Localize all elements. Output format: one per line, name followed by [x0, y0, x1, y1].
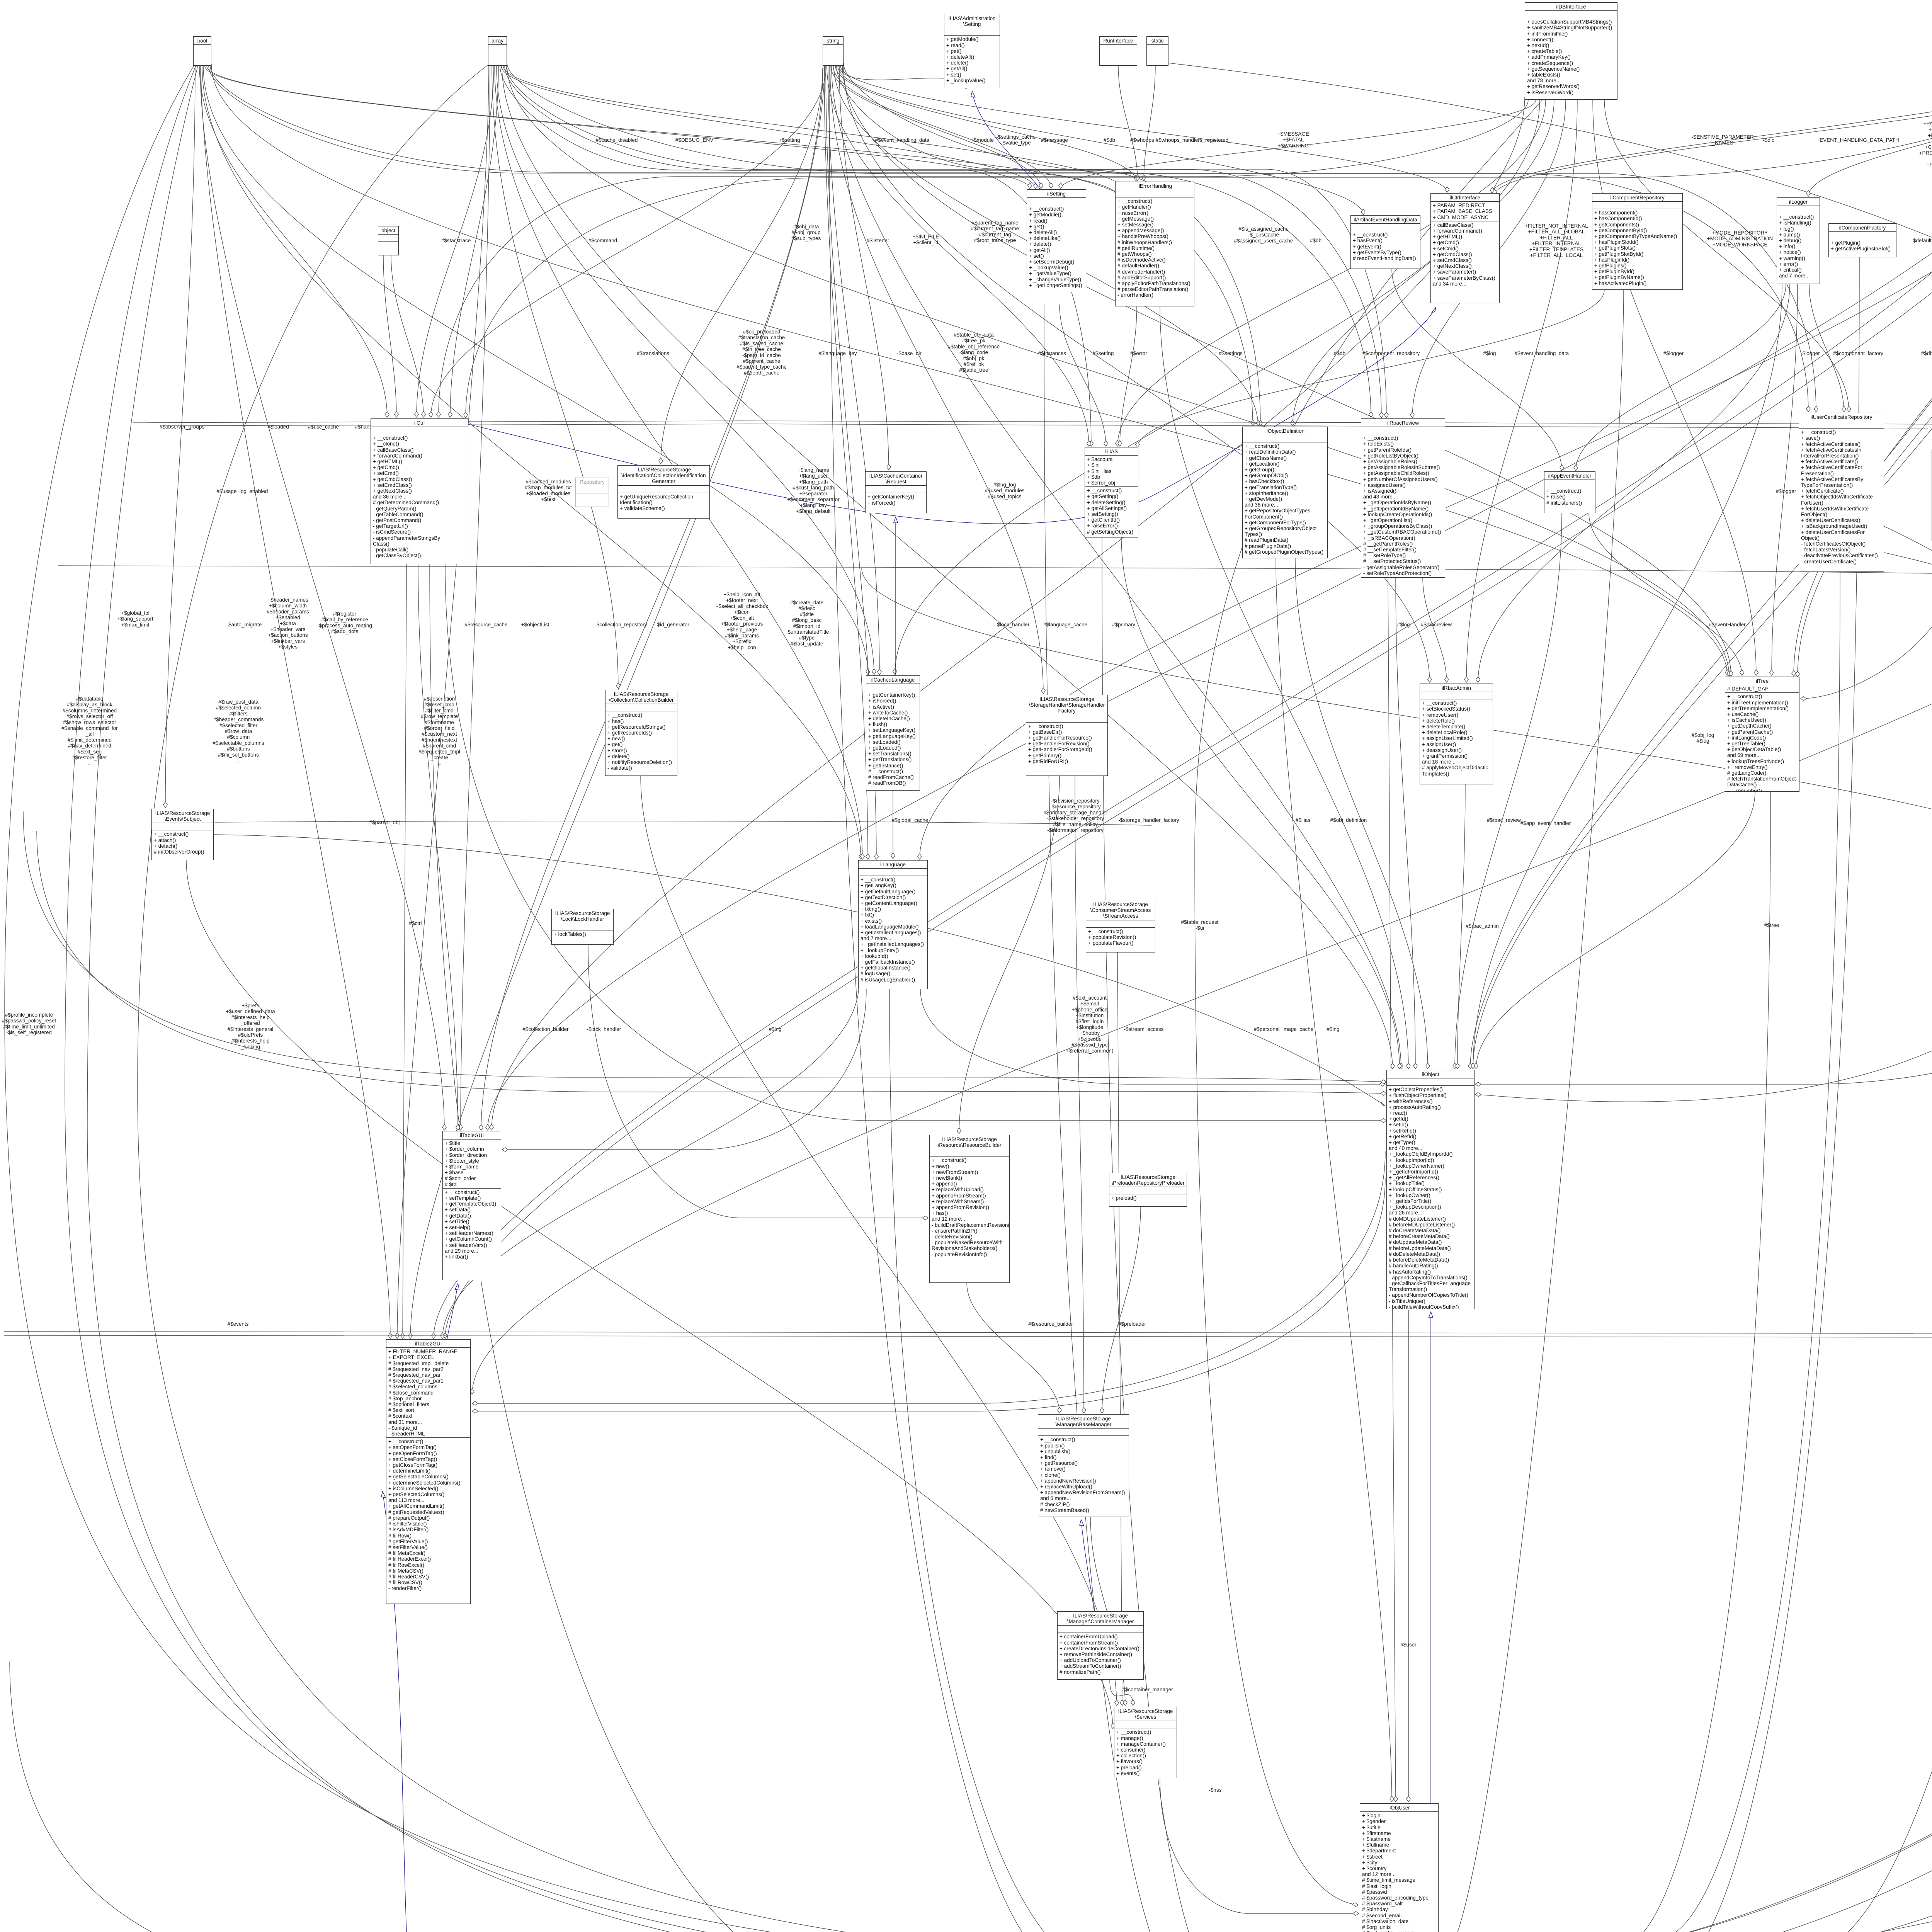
edge blue-ContainerMgr-BaseMgr	[1081, 1520, 1094, 1611]
svg-text:-$storage_handler_factory: -$storage_handler_factory	[1118, 817, 1179, 823]
svg-text:#$resource_builder: #$resource_builder	[1028, 1321, 1073, 1327]
svg-text:#$tree: #$tree	[1764, 922, 1779, 928]
class BaseManager	[1038, 1414, 1129, 1517]
edge ilCompRepo-ILIAS	[1138, 290, 1604, 447]
edge ilLogger-ilAppEvent	[1576, 284, 1786, 471]
svg-text:+$global_tpl+$lang_support+$ma: +$global_tpl+$lang_support+$max_limit	[117, 610, 153, 628]
edge busF2	[4, 1333, 1932, 1338]
edge busC1	[58, 566, 1932, 587]
svg-text:#$rbac_review: #$rbac_review	[1487, 817, 1521, 823]
svg-text:-$collection_repository: -$collection_repository	[595, 622, 647, 628]
svg-text:#$register#$call_by_reference-: #$register#$call_by_reference-$process_a…	[317, 611, 372, 634]
class StorageHandlerFactory	[1026, 695, 1108, 776]
edge Preloader-BaseMgr	[1102, 1207, 1141, 1413]
edge array-ilUserCert	[507, 63, 1808, 412]
edge static-ilErrorHandling	[1144, 66, 1155, 180]
edge const-ilLogger	[1808, 66, 1932, 196]
svg-text:#$lng: #$lng	[769, 1026, 781, 1032]
edge array-CollBuilder	[492, 66, 618, 689]
edge db-ILIAS	[1117, 100, 1546, 446]
svg-text:#$translations: #$translations	[637, 350, 669, 356]
class ilAppEventHandler	[1544, 471, 1595, 513]
edge string-ilObjectDefinition	[834, 66, 1258, 426]
edge ilGlobalTpl-ilTable2GUI	[472, 416, 1932, 1394]
svg-text:#$app_event_handler: #$app_event_handler	[1520, 820, 1571, 826]
svg-text:-$lock_handler: -$lock_handler	[587, 1026, 621, 1032]
edge ilCtrl-ilObject	[445, 564, 1386, 1121]
svg-text:#$whoops_handlers_registered: #$whoops_handlers_registered	[1156, 137, 1228, 143]
edge const-ilTree	[1798, 66, 1932, 677]
edge bool-ilObjUser-b	[65, 66, 1357, 1932]
edge int-ilCtrl	[466, 63, 1932, 418]
svg-text:#$listener: #$listener	[867, 238, 889, 243]
edge db-ilRbacAdmin	[1466, 100, 1577, 682]
svg-text:#$message: #$message	[1041, 137, 1068, 143]
svg-text:-$logger: -$logger	[1801, 350, 1820, 356]
edge bool-ilObjectDefinition	[209, 66, 1253, 425]
edge ilObjectDIC-ilObject	[1475, 271, 1932, 1102]
edge blue-ilObjUser-ilObject	[1430, 1312, 1431, 1803]
edge Services-ilObjUser	[1160, 1778, 1359, 1913]
class object	[378, 226, 399, 255]
svg-text:#$db: #$db	[1310, 238, 1321, 243]
edge array-ilObjectDefinition	[505, 66, 1260, 426]
edge string-ilTable2GUI	[410, 66, 825, 1338]
svg-text:#$lng_log#$used_modules#$used_: #$lng_log#$used_modules#$used_topics	[985, 482, 1025, 499]
svg-text:#$error: #$error	[1130, 350, 1147, 356]
class ilDBInterface	[1525, 2, 1617, 100]
svg-text:-$auto_migrate: -$auto_migrate	[227, 622, 262, 628]
edge ilLogger-ilUserCert	[1809, 284, 1844, 412]
edge ilRbacAdmin-ilObject	[1458, 784, 1465, 1069]
svg-text:#$loaded: #$loaded	[267, 424, 289, 430]
edge LockHandler-ResBuilder	[588, 945, 928, 1218]
edge ilAppEvent-ilTree	[1589, 513, 1742, 675]
edge array-ilLanguage	[495, 66, 862, 859]
svg-text:+$setting: +$setting	[779, 137, 800, 143]
edge string-ilObject	[832, 66, 1401, 1069]
svg-text:+$prefs+$user_defined_data#$in: +$prefs+$user_defined_data#$interests_he…	[226, 1003, 275, 1049]
edge const-ilLanguage	[920, 66, 1932, 859]
edge string-ilTree	[842, 64, 1731, 676]
edge string-ilSetting1	[831, 66, 1041, 189]
edge ilCtrl-ilTableGUI	[418, 564, 458, 1130]
edge bool-ilTableGUI	[200, 66, 444, 1130]
edge ilTree-ilObjUser	[1440, 792, 1770, 1932]
class ilArtifact	[1350, 215, 1420, 269]
edge string-ilTableGUI	[481, 66, 823, 1130]
svg-text:#$stacktrace: #$stacktrace	[441, 238, 471, 243]
svg-text:#$datatable#$display_as_block#: #$datatable#$display_as_block#$columns_d…	[61, 696, 118, 766]
edge CollBuilder-Services	[641, 776, 1117, 1706]
edge ilRbacReview-ilRbacAdmin	[1423, 578, 1447, 682]
svg-text:+FILTER_NOT_INTERNAL+FILTER_AL: +FILTER_NOT_INTERNAL+FILTER_ALL_GLOBAL+F…	[1525, 223, 1588, 258]
edge string-ilLanguage1	[824, 66, 868, 859]
svg-text:#$collection_builder: #$collection_builder	[522, 1026, 569, 1032]
edge Subject-Services	[186, 860, 1113, 1729]
svg-text:#$logger: #$logger	[1663, 350, 1684, 356]
svg-text:#$raw_post_data#$selected_colu: #$raw_post_data#$selected_column#$filter…	[213, 699, 264, 764]
svg-text:+$help_icon_alt+$footer_next+$: +$help_icon_alt+$footer_next+$select_all…	[716, 592, 768, 656]
edge int-ilTableGUI	[488, 64, 1932, 1130]
edge string-ilErrorHandling	[835, 66, 1136, 181]
edge ilCron-ilObjUser	[1441, 670, 1932, 1932]
class ilErrorHandling	[1115, 182, 1194, 306]
edge ilLanguage-ilObject	[920, 989, 1385, 1084]
svg-text:#$cache_disabled: #$cache_disabled	[596, 137, 638, 143]
svg-text:-$irss: -$irss	[1209, 1787, 1222, 1793]
edge busE2	[37, 831, 1386, 1094]
svg-text:#$preloader: #$preloader	[1118, 1321, 1146, 1327]
edge object-ilCtrl-2	[391, 255, 423, 417]
edge static-far	[1168, 63, 1932, 1932]
edge object-ilCtrl-1	[383, 255, 396, 417]
edge ilSetting-ilObjUser	[1044, 304, 1358, 1932]
edge user-vert	[1408, 1310, 1409, 1802]
edge array-ilTree	[507, 64, 1729, 676]
svg-text:#$instances: #$instances	[1038, 350, 1066, 356]
edge DateFmt-ilObjUser	[1441, 1756, 1932, 1932]
class ilObjUser	[1360, 1803, 1439, 1932]
edge bool-ilCtrl	[199, 66, 387, 417]
edge string-ilSetting2	[833, 66, 1051, 189]
edge bool-ilObjUser-a	[5, 66, 1357, 1932]
svg-text:#$db: #$db	[1921, 350, 1932, 356]
svg-text:#$user: #$user	[1400, 1642, 1417, 1648]
edge ilCompRepo-ilObjUser	[1440, 290, 1624, 1932]
class LockHandler	[551, 909, 614, 945]
edge busD1	[215, 821, 1151, 825]
edge ilRbacReview-ilObjUser	[1388, 578, 1396, 1802]
edge run-ilErrorHandling	[1118, 66, 1138, 180]
svg-text:#$personal_image_cache: #$personal_image_cache	[1254, 1026, 1314, 1032]
edge string-ilRbacAdmin	[844, 65, 1430, 682]
edge ResBuilder-BaseMgr	[967, 1283, 1060, 1413]
edge ilLogger-ilRbacAdmin	[1478, 284, 1790, 682]
edge string-CacheRequest	[839, 66, 889, 470]
edge ilObjDef-ilObjUser	[1276, 558, 1392, 1802]
class ilTreeImplementation	[1932, 449, 1932, 541]
svg-text:+$MESSAGE+$FATAL+$WARNING: +$MESSAGE+$FATAL+$WARNING	[1277, 131, 1309, 148]
edge busB2	[162, 424, 1928, 428]
svg-text:-$stream_access: -$stream_access	[1124, 1026, 1164, 1032]
edge ilUserCert-ilExercise	[1440, 553, 1932, 1932]
edge db-ilSetting	[1061, 100, 1536, 189]
svg-text:#$create_date#$desc#$title#$lo: #$create_date#$desc#$title#$long_desc#$i…	[785, 600, 829, 646]
svg-text:+$header_names+$column_width#$: +$header_names+$column_width#$header_par…	[267, 597, 309, 650]
edge const-ilCtrlInterface	[1495, 66, 1932, 195]
edge int-ilObjUser	[1440, 66, 1932, 1932]
edge ilErr-ilObject	[1160, 306, 1408, 1069]
svg-text:#$obj_log#$log: #$obj_log#$log	[1692, 732, 1714, 744]
svg-text:#$rbacreview: #$rbacreview	[1421, 622, 1452, 628]
edge ilLogger-ilObject	[1473, 284, 1782, 1069]
class ilCtrlInterface	[1430, 193, 1500, 303]
edge db-ilTableGUI	[492, 97, 1525, 1130]
class ilCtrl	[371, 418, 468, 564]
edge blue-ilTable2GUI-ilTableGUI	[447, 1284, 458, 1339]
edge bool-ilLanguage	[202, 66, 861, 859]
svg-text:+$INI_FILE+$client_id: +$INI_FILE+$client_id	[913, 234, 939, 245]
edge ilCached-ilLanguage	[893, 791, 893, 859]
svg-text:#$logger: #$logger	[1776, 488, 1796, 494]
svg-text:#$setting: #$setting	[1093, 350, 1114, 356]
edge ilErr-ILIAS	[1120, 306, 1137, 446]
edge ilAppEvent-ilObject	[1455, 513, 1562, 1069]
edge BaseMgr-Services	[1090, 1517, 1125, 1706]
edge StreamAccess-Services	[1117, 952, 1122, 1706]
svg-text:#$description#$reset_cmd#$filt: #$description#$reset_cmd#$filter_cmd#$ro…	[418, 696, 460, 766]
edge array-ilTable2GUI	[397, 66, 489, 1338]
edge int-ilTree	[1794, 66, 1932, 676]
svg-text:#$db: #$db	[1334, 350, 1345, 356]
class string	[823, 36, 844, 66]
class ilSetting	[1027, 189, 1086, 292]
svg-text:#$usage_log_enabled: #$usage_log_enabled	[217, 488, 268, 494]
edge array-ilTableGUI	[461, 66, 490, 1130]
edge ILIAS-ilObject	[1121, 537, 1400, 1069]
edge ilCtrl-ilTable2GUI	[403, 564, 406, 1338]
edge string-ilCtrlInterface	[840, 66, 1447, 192]
svg-text:#$table_obj_data#$tree_pk#$tab: #$table_obj_data#$tree_pk#$table_obj_ref…	[948, 332, 1000, 373]
svg-text:#$resource_cache: #$resource_cache	[464, 622, 507, 628]
svg-text:#$language_key: #$language_key	[818, 350, 857, 356]
edge x-ilTable2GUI-r2	[472, 1179, 1385, 1411]
svg-text:#$observer_groups: #$observer_groups	[160, 424, 205, 430]
edge array-ilObjUser	[138, 65, 1357, 1932]
edge bool-ilRbacReview	[210, 66, 1371, 417]
svg-text:#$ext_account+$email+$phone_of: #$ext_account+$email+$phone_office+$inst…	[1066, 995, 1113, 1060]
svg-text:+EVENT_HANDLING_DATA_PATH: +EVENT_HANDLING_DATA_PATH	[1816, 137, 1899, 143]
class CacheRequest	[865, 471, 927, 513]
edge array-ilCachedLanguage	[497, 66, 874, 675]
svg-text:-$dic: -$dic	[1763, 137, 1774, 143]
edge ilLogger-ilTree	[1772, 284, 1798, 675]
class ilComponentRepository	[1592, 193, 1683, 290]
svg-text:-$defaultTitle: -$defaultTitle	[1911, 238, 1932, 243]
edge bool-ilTree	[211, 64, 1727, 675]
class ILIAS	[1085, 447, 1138, 537]
class bool	[193, 36, 211, 66]
edge bool-Subject	[165, 66, 195, 808]
class ilCachedLanguage	[866, 675, 920, 791]
edge bool-ilObjUser-c	[87, 66, 1357, 1932]
class static	[1146, 36, 1168, 66]
edge int-ilTable2GUI	[434, 66, 1932, 1338]
svg-text:#$whoops: #$whoops	[1130, 137, 1154, 143]
class ilObject	[1386, 1070, 1475, 1309]
edge db-ilCachedLanguage	[895, 100, 1540, 674]
svg-text:-$id_generator: -$id_generator	[655, 622, 689, 628]
edge array-ILIAS	[500, 66, 1091, 446]
svg-text:-$base_dir: -$base_dir	[897, 350, 922, 356]
svg-text:#$oc_preloaded#$translation_ca: #$oc_preloaded#$translation_cache#$is_sa…	[736, 329, 787, 376]
svg-text:-$settings_cache-$value_type: -$settings_cache-$value_type	[996, 134, 1036, 146]
svg-text:+MODE_REPOSITORY+MODE_ADMINIST: +MODE_REPOSITORY+MODE_ADMINISTRATION+MOD…	[1707, 230, 1773, 247]
edge db-ilUserCertRepo	[1604, 100, 1849, 412]
edge bool-ilTable2GUI	[201, 66, 390, 1338]
edge ilLanguage-ilTable2GUI	[442, 983, 859, 1338]
edge array-ilCtrl-1	[417, 66, 494, 417]
edge busC2	[862, 568, 1932, 877]
edge SHF-BaseMgr	[1075, 776, 1084, 1413]
edge ilGlobalTpl-ilObjUser	[1441, 416, 1932, 1932]
edge busG1	[10, 1662, 1357, 1932]
edge db-ilCtrl	[439, 100, 1528, 417]
edge ContainerMgr-Services	[1110, 1680, 1133, 1706]
svg-text:+$objectList: +$objectList	[521, 622, 549, 628]
svg-text:#$DEBUG_ENV: #$DEBUG_ENV	[675, 137, 713, 143]
edge string-ilRbacReview	[837, 66, 1386, 418]
edge const-ilObjUser-right	[1441, 66, 1932, 1932]
svg-text:-$revision_repository-$resourc: -$revision_repository-$resource_reposito…	[1043, 798, 1107, 833]
edge db-ilTree	[1593, 100, 1756, 675]
edge string-ilCachedLanguage	[828, 66, 879, 675]
class CollectionBuilder	[605, 690, 677, 776]
class ilRbacAdmin	[1420, 684, 1493, 784]
edge bool-ilCachedLanguage	[203, 66, 868, 675]
svg-text:#$primary: #$primary	[1112, 622, 1135, 628]
class array	[488, 36, 507, 66]
svg-text:#$rbac_admin: #$rbac_admin	[1466, 923, 1499, 929]
edge ilUserCert-ilObjUser	[1440, 572, 1840, 1932]
edge ilArtifact-ilAppEvent	[1392, 269, 1562, 471]
edge string-ilObjUser	[829, 66, 1358, 1932]
edge string-SHF	[830, 66, 1043, 694]
class ilTable2GUI	[386, 1339, 471, 1604]
class Services	[1114, 1707, 1177, 1778]
svg-text:#$event_handling_data: #$event_handling_data	[1515, 350, 1569, 356]
class ResourceBuilder	[929, 1135, 1010, 1283]
svg-text:#$lng: #$lng	[1327, 1026, 1339, 1032]
svg-text:-$lock_handler: -$lock_handler	[995, 622, 1030, 628]
edge blue-ilCachedLanguage-Request	[895, 517, 896, 675]
svg-text:#$is_assigned_cache-$_opsCache: #$is_assigned_cache-$_opsCache#$assigned…	[1234, 226, 1293, 243]
edge array-ilErrorHandling	[503, 66, 1122, 189]
class ilLogger	[1777, 197, 1820, 284]
svg-text:#$log: #$log	[1397, 622, 1410, 628]
svg-text:#$db: #$db	[1104, 137, 1115, 143]
edge string-ilArtifact	[838, 66, 1363, 215]
class ContainerManager	[1057, 1611, 1144, 1680]
class ilLanguage	[858, 860, 928, 989]
svg-text:#$log: #$log	[1483, 350, 1496, 356]
edge string-ilUserCert	[844, 63, 1816, 412]
edge ilUserCert-ilCron	[1884, 526, 1932, 1464]
class ilUserCertRepo	[1799, 413, 1884, 572]
svg-text:#$ctrl: #$ctrl	[409, 920, 422, 926]
edge bool-ilSetting	[205, 66, 1030, 189]
edge db-ilObjectDefinition	[1293, 100, 1554, 426]
svg-text:#$settings: #$settings	[1219, 350, 1243, 356]
edge busF1	[4, 1329, 1932, 1334]
svg-text:#$obj_definition: #$obj_definition	[1330, 817, 1367, 823]
edge ilObjDef-ilObject	[1295, 558, 1428, 1069]
class RunInterface	[1099, 36, 1137, 66]
class ilObjectDefinition	[1242, 427, 1328, 558]
edge ilLanguage-ilTableGUI	[502, 989, 866, 1150]
svg-text:#$command: #$command	[588, 238, 617, 243]
edge ILIAS-ilObjUser	[1102, 537, 1358, 1932]
edge string-ilCtrl	[431, 66, 826, 417]
svg-text:#$table_request-$ui: #$table_request-$ui	[1181, 919, 1219, 931]
edge array-ilSetting	[501, 66, 1036, 189]
edge blue-ilExercise-ilTable2GUI	[383, 1492, 1361, 1932]
svg-text:#$parent_obj: #$parent_obj	[369, 820, 400, 825]
edge int-ilCtrlInterface	[1492, 66, 1932, 193]
svg-text:#$container_manager: #$container_manager	[1122, 1687, 1173, 1692]
edge ilTreeImpl-ilTree	[1801, 541, 1932, 699]
edge string-ILIAS	[827, 66, 1089, 446]
svg-text:#$global_cache: #$global_cache	[892, 817, 929, 823]
edge ilTree-ilObject	[1476, 792, 1755, 1069]
edge ilObjProps-ilObject	[1475, 975, 1932, 1084]
class RepositoryPreloader	[1109, 1173, 1187, 1207]
svg-text:#$component_repository: #$component_repository	[1362, 350, 1420, 356]
svg-text:#$eventHandler: #$eventHandler	[1709, 622, 1746, 628]
svg-text:#$profile_incomplete#$passwd_p: #$profile_incomplete#$passwd_policy_rese…	[2, 1012, 56, 1036]
svg-text:#$ilias: #$ilias	[1296, 817, 1311, 823]
edge string-ilLanguage2	[826, 66, 876, 859]
edge int-ilObject	[1470, 66, 1932, 1069]
class AdminSetting	[944, 14, 1000, 88]
svg-text:#$language_cache: #$language_cache	[1043, 622, 1087, 628]
edge Subject-right	[214, 835, 1385, 1106]
class ilRbacReview	[1361, 418, 1445, 578]
edge db-ilObjUser	[1195, 100, 1543, 1905]
class ilTableGUI	[442, 1131, 501, 1280]
svg-text:#$obj_data#$obj_group#$sub_typ: #$obj_data#$obj_group#$sub_types	[791, 224, 821, 241]
edge x-ilTable2GUI-r1	[472, 1151, 1385, 1403]
edge blue-ilSetting-AdminSetting	[972, 91, 1040, 189]
edge array-ilObject	[502, 66, 1393, 1069]
class ilComponentFactory	[1828, 223, 1896, 257]
class Repository	[575, 478, 609, 507]
class EventsSubject	[151, 809, 214, 860]
edge SHF-ResBuilder	[959, 776, 1060, 1134]
edge busB1	[133, 420, 1932, 424]
edge array-ilRbacReview	[506, 66, 1381, 418]
edge const-ilObject	[1473, 66, 1932, 1069]
edge ilLanguage-ilObjUser	[889, 989, 1358, 1932]
svg-text:#$use_cache: #$use_cache	[308, 424, 339, 430]
class ilTree	[1725, 677, 1799, 792]
class CollIdGen	[617, 465, 710, 519]
svg-text:#$events: #$events	[228, 1321, 249, 1327]
edge ilCompFactory-ilObjUser	[1440, 257, 1859, 1932]
svg-text:#$event_handling_data: #$event_handling_data	[875, 137, 930, 143]
svg-text:#$parent_tag_name#$current_tag: #$parent_tag_name#$current_tag_name#$cur…	[971, 220, 1019, 243]
svg-text:#$cached_modules#$map_modules_: #$cached_modules#$map_modules_txt+$loade…	[525, 479, 572, 502]
edge db-ilRbacReview	[1412, 100, 1566, 418]
edge string-CollIdGen	[661, 68, 823, 464]
edge string-AdminSetting	[838, 64, 966, 89]
svg-text:+$module: +$module	[971, 137, 994, 143]
edge ilSetting-ILIAS	[1060, 304, 1106, 446]
svg-text:#$component_factory: #$component_factory	[1833, 350, 1883, 356]
edge ilRbacReview-ilObject	[1396, 578, 1415, 1069]
class StreamAccess	[1086, 900, 1155, 952]
edge bool-ilErrorHandling	[207, 66, 1117, 195]
edge array-ilCtrl-2	[450, 66, 498, 417]
svg-text:+$lang_name+$lang_user+$lang_p: +$lang_name+$lang_user+$lang_path#$cust_…	[787, 467, 840, 514]
edge ilCtrl-ilObjUser	[430, 564, 1358, 1932]
edge const-ilTable2GUI	[445, 66, 1932, 1338]
edge busE1	[23, 811, 1386, 1082]
edge blue-ilCtrl-ilCtrlInterface	[468, 307, 1436, 524]
